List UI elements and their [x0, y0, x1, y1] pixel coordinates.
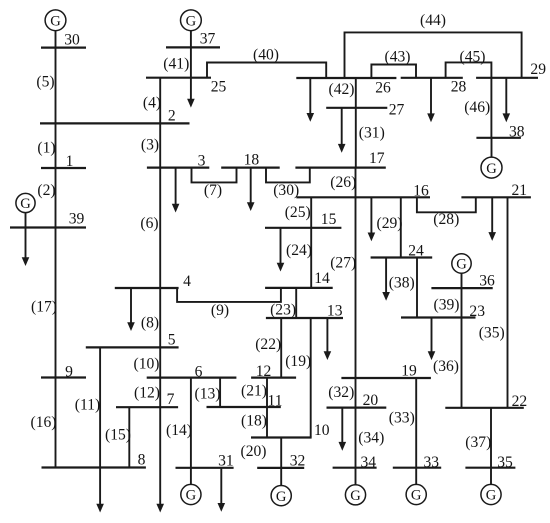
wire (29) 16-24 — [400, 197, 402, 257]
svg-text:15: 15 — [321, 211, 337, 228]
load arrow bus 13 — [324, 318, 332, 360]
svg-text:(35): (35) — [479, 325, 505, 342]
load arrow bus 4 — [127, 288, 135, 331]
svg-text:(37): (37) — [465, 434, 491, 451]
svg-text:G: G — [411, 488, 422, 504]
svg-text:(10): (10) — [134, 356, 160, 373]
wire (28) 16-21 — [417, 197, 476, 212]
generator G38 — [481, 157, 502, 178]
svg-text:(26): (26) — [330, 174, 356, 191]
bus 38 bar — [476, 137, 521, 139]
svg-text:(11): (11) — [75, 397, 100, 414]
generator G30 — [45, 10, 66, 31]
svg-text:(6): (6) — [140, 215, 158, 232]
svg-text:26: 26 — [375, 80, 391, 97]
bus 29 bar — [476, 77, 538, 79]
bus 32 bar — [257, 467, 304, 469]
wire 25-2-3-4-5-6-7 (middle trunk) — [159, 78, 161, 408]
svg-text:(3): (3) — [141, 137, 159, 154]
load arrow bus 28 — [427, 78, 435, 122]
svg-text:30: 30 — [64, 31, 80, 48]
svg-text:11: 11 — [267, 392, 282, 409]
bus 22 bar — [445, 407, 524, 409]
wire (7) 3-18 — [192, 168, 237, 183]
wire (19) 13-10 — [310, 318, 312, 438]
wire 38-G stub — [491, 138, 493, 157]
svg-text:18: 18 — [244, 152, 260, 169]
svg-text:(4): (4) — [143, 95, 161, 112]
svg-text:G: G — [276, 489, 287, 505]
svg-text:G: G — [486, 161, 497, 177]
bus 31 bar — [176, 467, 234, 469]
load arrow bus 23 — [428, 318, 436, 361]
svg-text:7: 7 — [167, 391, 175, 408]
svg-text:33: 33 — [424, 454, 440, 471]
svg-text:25: 25 — [211, 78, 227, 95]
svg-text:17: 17 — [369, 150, 385, 167]
wire (35) 21-22 — [507, 197, 509, 407]
generator G31 — [181, 484, 201, 504]
load arrow bus 21 — [488, 197, 496, 241]
svg-text:16: 16 — [413, 182, 429, 199]
generator G36 — [452, 254, 471, 273]
svg-text:(12): (12) — [134, 385, 160, 402]
svg-text:(45): (45) — [460, 48, 486, 65]
load arrow bus 3 — [172, 168, 180, 213]
load arrow bus 29 — [503, 78, 511, 122]
svg-text:G: G — [186, 14, 197, 30]
svg-text:8: 8 — [138, 452, 146, 469]
svg-text:(40): (40) — [253, 47, 279, 64]
wire (13) 6-11 — [219, 378, 221, 407]
bus 14 bar — [265, 287, 333, 289]
generator G35 — [481, 484, 501, 504]
wire (20) 10-32-G — [280, 438, 282, 486]
load arrow bus 15 — [277, 228, 285, 272]
bus 35 bar — [465, 467, 515, 469]
wire (9) 4-14 — [177, 288, 281, 302]
wire (43) 26-28 — [371, 65, 416, 79]
wire (22) 13-12 — [280, 318, 282, 378]
generator G33 — [406, 484, 426, 504]
svg-text:(23): (23) — [270, 302, 296, 319]
load arrow bus 20 — [339, 408, 347, 451]
bus 5 bar — [86, 346, 179, 348]
bus 11 bar — [207, 406, 281, 408]
svg-text:(1): (1) — [37, 140, 55, 157]
svg-text:G: G — [50, 14, 61, 30]
svg-text:(19): (19) — [285, 353, 311, 370]
load arrow bus 25 — [187, 78, 195, 108]
generator G34 — [345, 485, 365, 505]
wire (37) 22-35-G — [490, 408, 492, 485]
svg-text:(25): (25) — [285, 204, 311, 221]
wire (15) 7-8 — [128, 407, 130, 467]
svg-text:(29): (29) — [377, 215, 403, 232]
bus 30 bar — [41, 46, 86, 48]
svg-text:(5): (5) — [36, 74, 54, 91]
svg-text:(15): (15) — [105, 427, 131, 444]
bus 18 bar — [221, 167, 280, 169]
svg-text:(17): (17) — [31, 299, 57, 316]
load arrow bus 18 — [247, 168, 255, 211]
svg-text:(32): (32) — [328, 384, 354, 401]
load arrow bus 39 — [22, 228, 30, 267]
load arrow bus 8 — [96, 468, 104, 513]
svg-text:(7): (7) — [204, 182, 222, 199]
svg-text:G: G — [350, 488, 361, 504]
bus 34 bar — [333, 467, 377, 469]
svg-text:(16): (16) — [31, 414, 57, 431]
bus 39 bar — [10, 226, 86, 228]
svg-text:(18): (18) — [241, 412, 267, 429]
bus 28 bar — [401, 77, 463, 79]
svg-text:G: G — [186, 488, 197, 504]
svg-text:(2): (2) — [37, 182, 55, 199]
svg-text:(27): (27) — [330, 255, 356, 272]
svg-text:32: 32 — [290, 452, 306, 469]
svg-text:37: 37 — [200, 31, 216, 48]
bus 33 bar — [393, 467, 441, 469]
wire G36-36-23-(36)-22 — [461, 273, 463, 408]
svg-text:29: 29 — [530, 61, 546, 78]
svg-text:5: 5 — [168, 332, 176, 349]
wire (42)(31) 26-27-17 — [355, 78, 357, 168]
svg-text:(42): (42) — [329, 81, 355, 98]
svg-text:3: 3 — [198, 153, 206, 170]
load arrow bus 27 — [338, 108, 346, 153]
bus 36 bar — [431, 287, 492, 289]
svg-text:12: 12 — [256, 363, 272, 380]
bus 26 bar — [296, 77, 396, 79]
svg-text:36: 36 — [479, 272, 495, 289]
svg-text:(9): (9) — [211, 302, 229, 319]
svg-text:28: 28 — [451, 79, 467, 96]
wire (40) 25-26 — [207, 63, 326, 79]
load arrow bus 24 — [382, 258, 390, 301]
bus 27 bar — [326, 107, 387, 109]
svg-text:(34): (34) — [358, 430, 384, 447]
load arrow bus 16 — [368, 197, 376, 241]
svg-text:(41): (41) — [163, 56, 189, 73]
wire (14) 6-31-G — [190, 378, 192, 485]
generator G39 — [16, 193, 35, 212]
bus 3 bar — [147, 167, 209, 169]
wire G-39 stub — [25, 213, 27, 228]
svg-text:(24): (24) — [286, 242, 312, 259]
svg-text:9: 9 — [65, 364, 73, 381]
svg-text:(14): (14) — [166, 422, 192, 439]
svg-text:19: 19 — [401, 363, 417, 380]
svg-text:(22): (22) — [255, 336, 281, 353]
bus 6 bar — [147, 377, 237, 379]
svg-text:35: 35 — [497, 454, 513, 471]
bus 17 bar — [295, 167, 385, 169]
wire (25)(24) 16-15-14 — [310, 197, 312, 288]
bus 10 bar — [251, 436, 312, 438]
svg-text:4: 4 — [183, 273, 191, 290]
bus 25 bar — [146, 77, 211, 79]
generator G32 — [271, 486, 291, 506]
bus 1 bar — [41, 167, 86, 169]
svg-text:G: G — [486, 488, 497, 504]
bus 15 bar — [265, 227, 341, 229]
wire (26)(27)(32)(34) 17-16-19-20-34-G — [355, 168, 357, 485]
wire (45) 28-29 — [446, 62, 492, 77]
svg-text:27: 27 — [389, 101, 405, 118]
wire 37-25 via G37 — [190, 31, 192, 78]
wire 30-2-1-39-9-8 (left trunk) — [55, 31, 57, 468]
svg-text:22: 22 — [512, 393, 528, 410]
svg-text:(21): (21) — [241, 383, 267, 400]
svg-text:(36): (36) — [433, 358, 459, 375]
svg-text:21: 21 — [512, 182, 528, 199]
svg-text:2: 2 — [168, 108, 176, 125]
bus 13 bar — [266, 317, 343, 319]
svg-text:39: 39 — [69, 211, 85, 228]
bus 23 bar — [401, 316, 476, 318]
bus 7 bar — [116, 406, 178, 408]
svg-text:31: 31 — [218, 453, 234, 470]
wire (44) 26-29 — [345, 32, 522, 78]
svg-text:(30): (30) — [273, 182, 299, 199]
svg-text:14: 14 — [314, 270, 330, 287]
svg-text:10: 10 — [314, 422, 330, 439]
bus 16 bar — [296, 196, 430, 198]
svg-text:G: G — [456, 257, 467, 273]
svg-text:20: 20 — [363, 392, 379, 409]
svg-text:24: 24 — [408, 242, 424, 259]
svg-text:34: 34 — [361, 454, 377, 471]
wire (46) 29-38 — [490, 78, 492, 138]
svg-text:(43): (43) — [385, 48, 411, 65]
svg-text:13: 13 — [327, 303, 343, 320]
svg-text:(46): (46) — [464, 99, 490, 116]
bus 19 bar — [341, 377, 431, 379]
svg-text:1: 1 — [66, 153, 74, 170]
svg-text:(39): (39) — [434, 297, 460, 314]
svg-text:23: 23 — [469, 303, 485, 320]
wire (23) 14-13 — [295, 288, 297, 318]
svg-text:(8): (8) — [141, 315, 159, 332]
wire (38) 24-23 — [416, 258, 418, 318]
svg-text:(44): (44) — [420, 12, 446, 29]
wire (30) 18-17 — [266, 168, 310, 183]
load arrow bus 7 — [156, 407, 164, 512]
svg-text:38: 38 — [509, 123, 525, 140]
bus 4 bar — [115, 287, 179, 289]
bus 12 bar — [251, 377, 296, 379]
load arrow bus 31 — [218, 468, 226, 512]
bus 9 bar — [41, 376, 86, 378]
svg-text:G: G — [20, 196, 31, 212]
generator G37 — [181, 10, 202, 31]
svg-text:(13): (13) — [195, 386, 221, 403]
bus 37 bar — [166, 46, 220, 48]
svg-text:(33): (33) — [389, 410, 415, 427]
svg-text:(20): (20) — [241, 443, 267, 460]
bus 20 bar — [327, 407, 387, 409]
svg-text:(28): (28) — [433, 211, 459, 228]
svg-text:(38): (38) — [389, 275, 415, 292]
bus 8 bar — [42, 466, 146, 468]
load arrow bus 26 — [307, 78, 315, 122]
wire (21)(18) 12-11-10 — [266, 378, 268, 438]
bus 24 bar — [371, 256, 433, 258]
bus 21 bar — [461, 196, 531, 198]
svg-text:(31): (31) — [359, 124, 385, 141]
wire (11) 5-8 — [99, 347, 101, 467]
bus 2 bar — [40, 122, 190, 124]
wire (33) 19-33-G — [415, 378, 417, 484]
svg-text:6: 6 — [195, 364, 203, 381]
